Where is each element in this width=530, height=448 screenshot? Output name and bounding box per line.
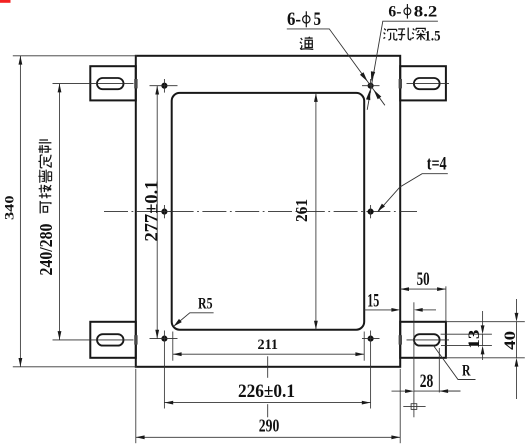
dim 290 line [136, 436, 400, 438]
leader t=4 [378, 174, 448, 212]
tab bottom-right [400, 322, 446, 358]
dim 340 line [19, 56, 21, 367]
dim 50 line [400, 288, 446, 290]
dim 211 line [173, 353, 364, 355]
dim 40 line [516, 299, 518, 313]
svg-text:211: 211 [258, 337, 279, 353]
hole crosshairs [150, 79, 380, 339]
svg-text:5: 5 [314, 9, 322, 30]
hole top-left [161, 83, 167, 89]
leader R [434, 346, 476, 380]
hole mid-right [368, 209, 374, 215]
svg-text:6-: 6- [287, 9, 301, 30]
leader 6-phi5 [287, 29, 385, 105]
edge weld blocks at slot heights [134, 79, 402, 345]
svg-text:240/280: 240/280 [36, 223, 56, 275]
svg-text:261: 261 [292, 199, 311, 222]
plate outline [136, 56, 400, 367]
leader 6-phi8.2 [367, 21, 438, 110]
tab bottom-left [90, 322, 136, 358]
svg-text:290: 290 [259, 416, 280, 436]
hole mid-left [161, 209, 167, 215]
leader R5 [175, 313, 214, 326]
slot top-right [414, 78, 440, 89]
hole bottom-left [161, 336, 167, 342]
slot bottom-left [97, 334, 124, 345]
leader lines [175, 21, 476, 379]
svg-text:40: 40 [502, 331, 519, 350]
slot centerline bottom-left [53, 339, 134, 341]
red corner mark [0, 0, 11, 3]
svg-text:8.2: 8.2 [414, 4, 438, 21]
label tong [300, 37, 313, 50]
dim 226 line [164, 402, 370, 404]
inner opening rounded rect [172, 93, 365, 330]
tab top-left [90, 66, 136, 100]
svg-text:t=4: t=4 [427, 154, 447, 175]
label chen kong shen 1.5 [383, 29, 397, 40]
dim text kekexudingzhi rotated [40, 201, 51, 214]
svg-text:6-: 6- [388, 4, 401, 21]
horizontal centerline [104, 211, 417, 213]
svg-text:226±0.1: 226±0.1 [238, 381, 295, 402]
dim 277 line [156, 86, 158, 339]
svg-text:15: 15 [367, 290, 379, 311]
dim 28 line [392, 390, 406, 392]
svg-text:13: 13 [466, 329, 483, 348]
slot bottom-right [414, 334, 440, 345]
svg-text:340: 340 [3, 196, 17, 221]
svg-text:50: 50 [417, 270, 430, 290]
tab top-right [400, 66, 446, 100]
svg-text:28: 28 [420, 371, 434, 392]
svg-text:R: R [462, 363, 471, 380]
dim 261 line [315, 93, 317, 330]
svg-text:1.5: 1.5 [425, 29, 441, 45]
slot centerline top-right [407, 83, 450, 85]
hole top-right [368, 83, 374, 89]
svg-text:277±0.1: 277±0.1 [141, 181, 162, 242]
small square mark [411, 404, 417, 410]
slot top-left [97, 78, 124, 89]
hole bottom-right [368, 336, 374, 342]
dim 240/280 line [59, 84, 61, 340]
slot centerline top-left [53, 83, 134, 85]
svg-text:R5: R5 [198, 295, 213, 312]
dim 13 line [482, 311, 484, 326]
dim 15 line [364, 309, 392, 311]
slot centerline bottom-right [407, 339, 450, 341]
vertical center segments bottom [267, 356, 269, 378]
